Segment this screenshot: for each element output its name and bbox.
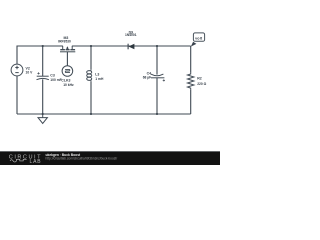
- svg-text:1N4001: 1N4001: [125, 33, 137, 37]
- wire C3 branch bottom: [42, 79, 44, 114]
- voltmeter flag tail: [191, 42, 197, 47]
- voltage source V2: [11, 64, 23, 76]
- wire L3 branch top: [90, 46, 92, 69]
- wire top right segment: [72, 45, 191, 47]
- svg-text:IRF9530: IRF9530: [58, 39, 71, 43]
- wire left vertical below V2: [16, 76, 18, 114]
- svg-text:1 mH: 1 mH: [95, 77, 104, 81]
- ground: [38, 114, 47, 123]
- svg-text:10 V: 10 V: [26, 71, 34, 75]
- inductor L3: [87, 69, 92, 81]
- svg-text:LAB: LAB: [30, 159, 42, 165]
- wire top left segment: [17, 46, 63, 64]
- node dot C3 top: [42, 45, 44, 47]
- clock source CLK3: [62, 66, 73, 77]
- wire gate to clock: [66, 52, 68, 66]
- svg-text:CLK3: CLK3: [61, 78, 70, 82]
- svg-text:R2: R2: [197, 76, 202, 80]
- capacitor C4: [151, 74, 165, 81]
- wire bottom rail: [17, 113, 191, 115]
- voltmeter flag bubble: [193, 33, 204, 41]
- resistor R2: [188, 73, 194, 90]
- wire C3 branch top: [42, 46, 44, 76]
- node dot C4 top: [156, 45, 158, 47]
- transistor M3 (PMOS): [60, 46, 75, 52]
- node dot L3 bottom: [90, 113, 92, 115]
- svg-text:10 kHz: 10 kHz: [63, 83, 74, 87]
- svg-text:100 mF: 100 mF: [50, 78, 61, 82]
- svg-text:http://circuitlab.com/circuit/: http://circuitlab.com/circuit/ah9t3bn3nz…: [46, 157, 118, 161]
- node dot C4 bottom: [156, 113, 158, 115]
- footer bar: [0, 152, 220, 166]
- diode D9: [128, 44, 134, 50]
- wire R2 branch top: [190, 46, 192, 73]
- svg-text:volt: volt: [195, 37, 203, 41]
- wire R2 branch bottom: [190, 89, 192, 114]
- svg-text:68 µF: 68 µF: [143, 76, 152, 80]
- capacitor C3: [37, 72, 49, 79]
- node dot L3 top: [90, 45, 92, 47]
- footer logo wave: [10, 159, 27, 162]
- svg-text:220 Ω: 220 Ω: [197, 82, 206, 86]
- wire C4 branch bottom: [156, 78, 158, 114]
- wire L3 branch bottom: [90, 82, 92, 114]
- wire C4 branch top: [156, 46, 158, 75]
- node dot ground bottom: [42, 113, 44, 115]
- arrow of M3 bulk: [66, 46, 69, 49]
